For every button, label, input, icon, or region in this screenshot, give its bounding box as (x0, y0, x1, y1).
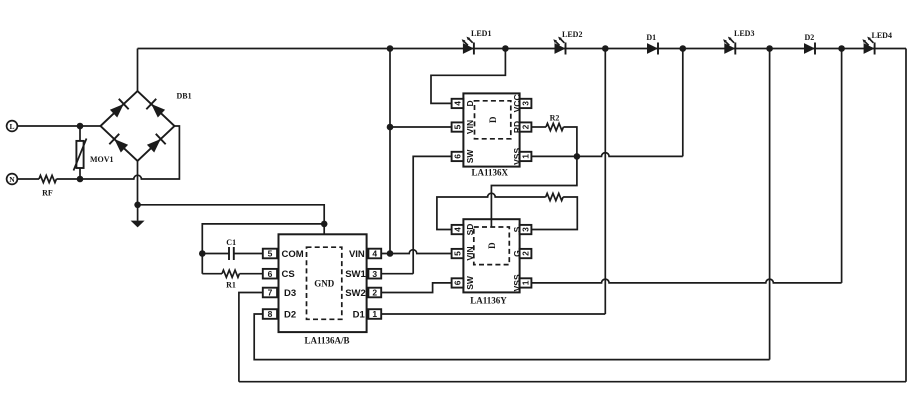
svg-text:SW: SW (465, 149, 475, 164)
svg-text:3: 3 (521, 227, 531, 232)
wire N to RF (17, 178, 39, 180)
svg-text:4: 4 (453, 101, 463, 106)
svg-text:3: 3 (372, 269, 377, 279)
junction dot LA1136X VSS/R2 (574, 153, 581, 160)
svg-text:LA1136Y: LA1136Y (470, 296, 507, 306)
junction dot bus/D2 riser (766, 45, 773, 52)
wire main VIN riser bus to VIN line (389, 49, 391, 254)
svg-text:3: 3 (521, 101, 531, 106)
pin 5 box (263, 249, 277, 259)
pin 7 box (263, 288, 277, 298)
op-amp-style main IC U1 LA1136A/B body (263, 234, 381, 345)
pin 4 box (368, 249, 381, 259)
svg-text:4: 4 (372, 249, 377, 259)
wire LA1136Y SD loop with hop (437, 193, 546, 229)
svg-text:R2: R2 (550, 113, 560, 122)
svg-text:L: L (9, 122, 14, 131)
junction dot bus/LA1136X D loop (502, 45, 509, 52)
pin 5 box (452, 249, 464, 258)
svg-text:4: 4 (453, 227, 463, 232)
junction dot bus/D1 riser (602, 45, 609, 52)
pin 3 box (368, 269, 381, 279)
wire LA1136X VSS line with hop (531, 153, 682, 157)
wire GND net into IC GND pad (323, 224, 325, 247)
IC U3 LA1136Y body (452, 219, 532, 305)
wire bottom D3 run (239, 381, 906, 383)
junction dot bus/LA1136X VSS riser (680, 45, 687, 52)
junction dot GND net (321, 221, 328, 228)
bridge rectifier DB1 (101, 91, 192, 161)
ground (131, 205, 145, 228)
varistor MOV1 (74, 126, 114, 179)
wire D2 pin8 run (254, 314, 769, 360)
resistor R2 (531, 113, 577, 156)
dashed DMOS pad (475, 101, 511, 139)
bridge diode DB1 upper-left (109, 99, 129, 119)
pin 1 box (520, 152, 532, 161)
pin 6 box (452, 278, 464, 287)
svg-text:8: 8 (268, 309, 273, 319)
junction dot bus/VIN riser (387, 45, 394, 52)
svg-text:1: 1 (521, 280, 531, 285)
junction dot L/MOV1 (77, 123, 84, 130)
junction dot LA1136X VIN (387, 124, 394, 131)
bridge diode DB1 lower-left (109, 134, 129, 154)
wire riser bus to D1 pin (604, 49, 606, 315)
svg-text:N: N (9, 175, 15, 184)
wire R2 node down to LA1136Y gate pad (491, 156, 577, 227)
wire bus right drop (905, 49, 907, 382)
wire bridge minus down to ground node (137, 161, 139, 205)
svg-text:LED1: LED1 (471, 29, 491, 38)
svg-text:LA1136X: LA1136X (471, 168, 508, 178)
junction dot ground node (134, 202, 141, 209)
svg-text:SW1: SW1 (345, 269, 366, 280)
svg-text:6: 6 (453, 280, 463, 285)
wire SW2 pin2 to LA1136Y pin6 SW (381, 283, 451, 293)
svg-text:COM: COM (282, 249, 304, 260)
svg-text:5: 5 (453, 251, 463, 256)
svg-text:7: 7 (268, 288, 273, 298)
svg-text:D2: D2 (284, 309, 296, 320)
dashed GND pad (307, 247, 342, 319)
pin 2 box (520, 122, 532, 131)
LED1 (462, 29, 492, 55)
svg-text:SW: SW (465, 275, 475, 290)
pin 1 box (368, 309, 381, 319)
svg-text:VCC: VCC (512, 94, 522, 112)
LED3 (723, 29, 754, 55)
wire LA1136Y VSS riser to bus (841, 49, 843, 283)
pin 1 box (520, 278, 532, 287)
junction dot COM/C1 (199, 250, 206, 257)
svg-text:SD: SD (465, 224, 475, 236)
svg-text:LED3: LED3 (734, 29, 754, 38)
wire riser bus to D2 run (769, 49, 771, 360)
bridge diode DB1 lower-right (146, 134, 166, 154)
pin 4 box (452, 225, 464, 234)
svg-text:6: 6 (453, 154, 463, 159)
wire D1 pin1 to riser (381, 313, 605, 315)
pin 4 box (452, 99, 464, 108)
svg-text:G: G (512, 250, 522, 257)
svg-text:MOV1: MOV1 (90, 155, 114, 164)
resistor R1 (202, 270, 263, 289)
terminal N (7, 174, 18, 185)
junction dot bus/LA1136Y VSS riser (838, 45, 845, 52)
svg-text:D3: D3 (284, 288, 296, 299)
LED2 (553, 30, 582, 55)
svg-text:D1: D1 (353, 309, 366, 320)
svg-text:2: 2 (521, 124, 531, 129)
junction dot N/MOV1 (77, 176, 84, 183)
svg-text:VIN: VIN (465, 246, 475, 260)
svg-text:1: 1 (521, 154, 531, 159)
svg-text:VIN: VIN (349, 249, 365, 260)
svg-text:2: 2 (521, 251, 531, 256)
svg-text:D2: D2 (805, 33, 815, 42)
wire R3 to LA1136Y pin3 S (531, 197, 577, 230)
resistor R3 (546, 193, 563, 200)
svg-text:D: D (488, 116, 498, 123)
svg-text:CS: CS (282, 269, 295, 280)
LED4 (862, 31, 892, 55)
wire GND net to C1/R1 branch (202, 224, 324, 274)
svg-text:VIN: VIN (465, 120, 475, 134)
wire LA1136X pin6 SW down to SW1 (413, 156, 451, 273)
svg-text:S: S (512, 226, 522, 232)
pin 8 box (263, 309, 277, 319)
wire LA1136Y VSS line with hops (531, 279, 841, 283)
IC U2 LA1136X body (452, 93, 532, 177)
svg-text:2: 2 (372, 288, 377, 298)
bridge diode DB1 upper-right (146, 99, 166, 119)
resistor RF (39, 175, 56, 197)
pin 5 box (452, 122, 464, 131)
pin 3 box (520, 99, 532, 108)
pin 2 box (520, 249, 532, 258)
wire SW1 pin3 to LA1136X SW riser (381, 273, 413, 275)
svg-text:5: 5 (453, 124, 463, 129)
wire LA1136X VSS riser to bus (682, 49, 684, 157)
terminal L (7, 121, 18, 132)
svg-text:D: D (465, 100, 475, 106)
wire bridge plus to top bus (137, 49, 139, 92)
junction dot main VIN (387, 250, 394, 257)
svg-text:R1: R1 (226, 281, 236, 290)
pin 6 box (452, 152, 464, 161)
svg-text:LED2: LED2 (562, 30, 582, 39)
wire D3 pin7 riser (239, 293, 263, 382)
svg-text:LA1136A/B: LA1136A/B (304, 336, 349, 346)
dashed DMOS pad (474, 227, 510, 265)
svg-text:D: D (487, 242, 497, 249)
svg-text:GND: GND (314, 278, 335, 288)
pin 3 box (520, 225, 532, 234)
wire LA1136X pin4 D loop to bus (431, 49, 505, 104)
svg-text:RF: RF (42, 189, 53, 198)
svg-text:5: 5 (268, 249, 273, 259)
wire L to bridge (17, 125, 100, 127)
svg-text:RD: RD (512, 121, 522, 133)
diode D1 (646, 33, 658, 55)
wire ground bus to GND branch (138, 205, 325, 224)
wire LA1136X pin5 VIN to riser (390, 126, 452, 128)
diode D2 (804, 33, 815, 55)
wire VIN line pin4 to LA1136Y pin5 with hop (381, 250, 451, 254)
svg-text:LED4: LED4 (872, 31, 892, 40)
svg-text:DB1: DB1 (177, 92, 192, 101)
svg-text:VSS: VSS (512, 274, 522, 291)
svg-text:1: 1 (372, 309, 377, 319)
wire top bus (138, 48, 907, 50)
svg-text:6: 6 (268, 269, 273, 279)
svg-text:D1: D1 (646, 33, 656, 42)
svg-text:VSS: VSS (512, 148, 522, 165)
capacitor C1 (202, 238, 263, 260)
pin 6 box (263, 269, 277, 279)
pin 2 box (368, 288, 381, 298)
svg-text:SW2: SW2 (345, 288, 366, 299)
svg-text:C1: C1 (226, 238, 236, 247)
wire N line with hop over bridge return (56, 126, 179, 179)
